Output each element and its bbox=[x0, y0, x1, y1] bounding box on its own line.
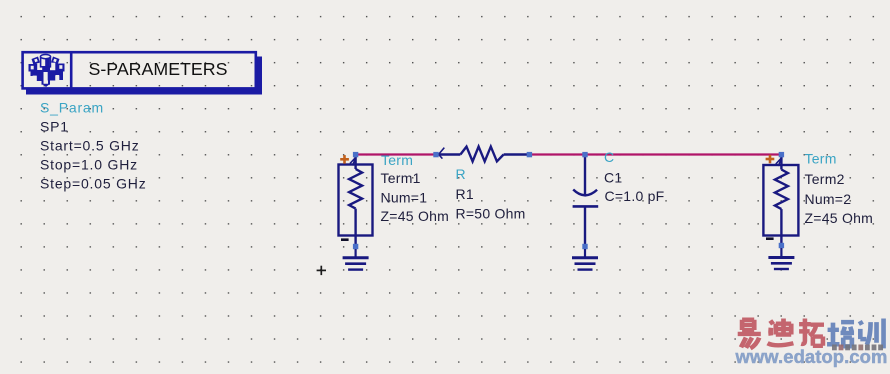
label Z=45 Ohm (Term1) bbox=[381, 208, 450, 224]
Term1 plus polarity mark bbox=[340, 155, 349, 164]
svg-text:R=50 Ohm: R=50 Ohm bbox=[456, 205, 526, 221]
watermark small tagline bbox=[832, 345, 883, 351]
svg-text:S_Param: S_Param bbox=[40, 99, 104, 115]
label S-PARAMETERS bbox=[89, 59, 228, 79]
simulation controller S-PARAMETERS box frame bbox=[23, 51, 256, 90]
label R bbox=[456, 166, 466, 182]
capacitor C1 bbox=[573, 156, 599, 245]
terminal Term1 bbox=[339, 156, 373, 245]
svg-text:www.edatop.com: www.edatop.com bbox=[735, 346, 888, 367]
svg-text:Term: Term bbox=[381, 152, 413, 168]
label Step=0.05 GHz bbox=[40, 175, 147, 191]
svg-text:Term: Term bbox=[805, 151, 837, 167]
label Z=45 Ohm (Term2) bbox=[805, 210, 874, 226]
label C=1.0 pF bbox=[605, 188, 665, 204]
svg-text:Stop=1.0 GHz: Stop=1.0 GHz bbox=[40, 156, 138, 172]
ground under Term2 bbox=[768, 248, 794, 269]
C1 bottom pin node bbox=[582, 244, 587, 249]
watermark www.edatop.com bbox=[735, 346, 888, 367]
label Num=1 bbox=[381, 190, 428, 206]
svg-text:C1: C1 bbox=[604, 170, 622, 186]
wire from R1 to Term2 bbox=[529, 153, 781, 155]
ground under Term1 bbox=[343, 249, 369, 270]
label Term1 bbox=[381, 170, 421, 186]
label C1 bbox=[604, 170, 622, 186]
svg-text:Term1: Term1 bbox=[381, 170, 421, 186]
terminal Term2 bbox=[763, 156, 798, 245]
svg-text:C=1.0 pF: C=1.0 pF bbox=[605, 188, 665, 204]
svg-text:Z=45 Ohm: Z=45 Ohm bbox=[805, 210, 874, 226]
label Start=0.5 GHz bbox=[40, 137, 140, 153]
label C bbox=[604, 149, 614, 165]
ground under C1 bbox=[572, 249, 598, 270]
svg-text:Step=0.05 GHz: Step=0.05 GHz bbox=[40, 175, 147, 191]
label Term (Term1) bbox=[381, 152, 413, 168]
Term1 minus polarity mark bbox=[341, 238, 349, 241]
svg-text:Start=0.5 GHz: Start=0.5 GHz bbox=[40, 137, 140, 153]
svg-text:Z=45 Ohm: Z=45 Ohm bbox=[381, 208, 450, 224]
label R1 bbox=[456, 186, 474, 202]
Term2 plus polarity mark bbox=[766, 155, 775, 164]
label R=50 Ohm bbox=[456, 205, 526, 221]
label S_Param bbox=[40, 99, 104, 115]
simulation controller S-PARAMETERS box shadow bbox=[26, 57, 262, 95]
svg-text:Term2: Term2 bbox=[805, 171, 845, 187]
svg-text:R1: R1 bbox=[456, 186, 474, 202]
label Stop=1.0 GHz bbox=[40, 156, 138, 172]
label Term2 bbox=[805, 171, 845, 187]
svg-text:R: R bbox=[456, 166, 466, 182]
label SP1 bbox=[40, 118, 69, 134]
C1 tap node on wire bbox=[582, 152, 587, 157]
watermark chinese characters 易迪拓培训 bbox=[738, 319, 884, 349]
Term1 bottom pin node bbox=[353, 244, 358, 249]
simulation controller gear icon bbox=[29, 55, 65, 88]
Term2 bottom pin node bbox=[779, 243, 784, 248]
R1 pin 2 node bbox=[527, 152, 532, 157]
svg-text:Num=1: Num=1 bbox=[381, 190, 428, 206]
wire from Term1 to R1 bbox=[356, 153, 436, 155]
cursor cross marker bbox=[317, 266, 326, 275]
label Num=2 bbox=[805, 191, 852, 207]
R1 pin 1 node bbox=[433, 152, 438, 157]
resistor R1 bbox=[438, 147, 527, 162]
svg-text:C: C bbox=[604, 149, 614, 165]
label Term (Term2) bbox=[805, 151, 837, 167]
Term2 minus polarity mark bbox=[766, 237, 774, 240]
svg-text:S-PARAMETERS: S-PARAMETERS bbox=[89, 59, 228, 79]
svg-text:SP1: SP1 bbox=[40, 118, 69, 134]
Term1 top pin node bbox=[353, 152, 358, 157]
Term2 top pin node bbox=[779, 152, 784, 157]
svg-text:Num=2: Num=2 bbox=[805, 191, 852, 207]
